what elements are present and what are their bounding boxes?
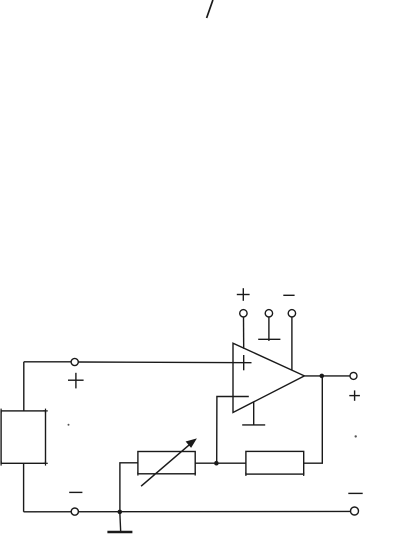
feedback wire to inverting input [217, 397, 249, 464]
resistor R2 corner ticks [246, 472, 304, 476]
wire: op-amp output [304, 375, 350, 377]
wire: top-left input circle left segment [24, 361, 71, 363]
speck dot right [355, 435, 357, 437]
label + at left input [68, 373, 84, 389]
wire: input circle to op-amp + input [78, 361, 251, 364]
ground bar mid supply [258, 338, 280, 340]
label + at output [349, 390, 360, 400]
junction dot output [320, 374, 325, 379]
input source box corner ticks [1, 409, 48, 466]
supply mid terminal circle [265, 310, 272, 317]
input terminal circle (top left) [71, 358, 78, 365]
wire: rheostat right lead to node [195, 462, 216, 464]
stray slash mark top [207, 0, 213, 18]
label - at bottom right terminal [348, 492, 362, 494]
supply +V terminal circle [240, 310, 247, 317]
wire: down from input to box [23, 362, 25, 411]
junction dot bottom ground [118, 510, 123, 515]
wire: +V into op-amp top [243, 317, 245, 349]
wire: node A to resistor R2 [216, 462, 246, 464]
ground symbol bottom [107, 512, 132, 532]
bottom-right terminal circle [351, 507, 359, 515]
resistor R2 box [246, 451, 304, 474]
rheostat R1 box [138, 452, 195, 474]
wire: box bottom down [23, 463, 25, 512]
supply +V label [237, 288, 250, 301]
op-amp U1 [233, 343, 304, 412]
wire: mid terminal down [268, 317, 270, 341]
rheostat arrow [141, 438, 197, 486]
rheostat R1 corner ticks [138, 472, 195, 476]
wire: rheostat left lead [120, 463, 138, 512]
speck dot left [68, 424, 70, 426]
supply -V terminal circle [288, 310, 295, 317]
junction dot node A [214, 461, 219, 466]
ground below op-amp [242, 402, 265, 426]
wire: -V down to op-amp [291, 317, 293, 370]
label - at left bottom terminal [69, 491, 82, 493]
input source box [1, 411, 45, 463]
bottom-left terminal circle [71, 508, 78, 515]
bottom wire (ground rail) [24, 510, 352, 512]
output terminal circle (top right) [350, 372, 357, 379]
supply -V label [283, 294, 294, 296]
wire: resistor R2 right lead up to output [304, 376, 323, 463]
op-amp non-inverting input label + [243, 355, 245, 370]
